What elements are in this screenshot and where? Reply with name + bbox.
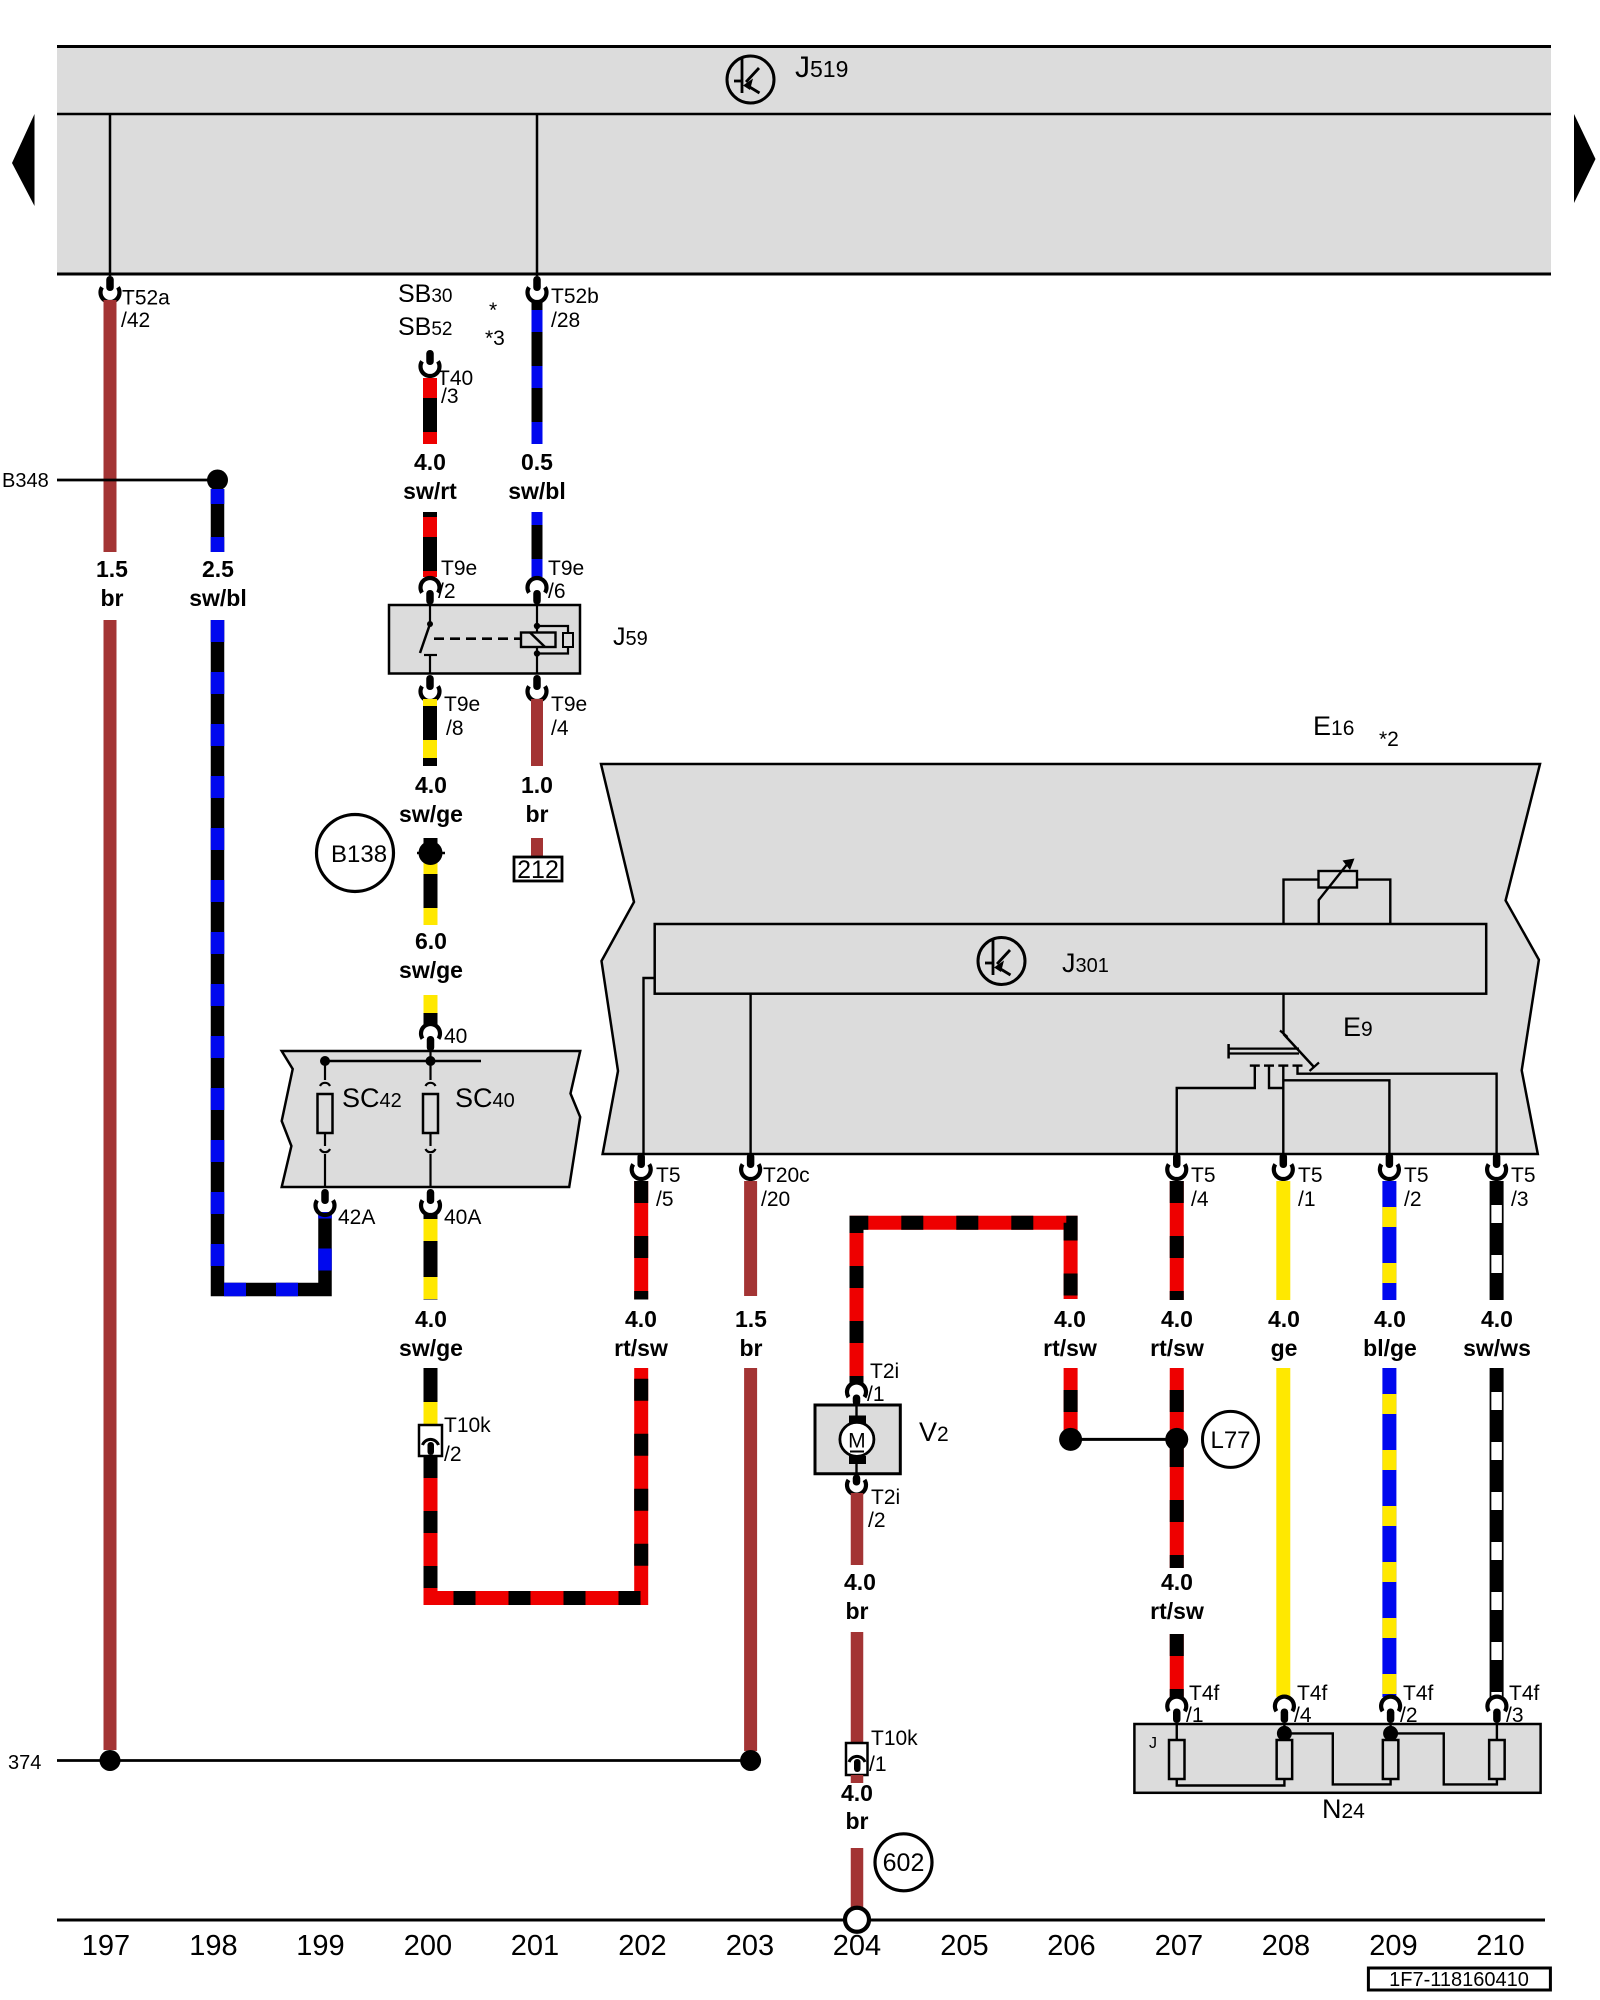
connector T9e/2 (421, 578, 440, 593)
resistor element 2 (1283, 1724, 1285, 1740)
fuse SC40 (429, 1050, 431, 1080)
potentiometer body (1319, 871, 1358, 888)
J519 bottom border (57, 273, 1551, 276)
wire bl/ge 4.0 below T5/2 (1382, 1181, 1396, 1300)
svg-text:205: 205 (940, 1930, 988, 1962)
wire sw/ge into T10k/2 (424, 1368, 438, 1426)
connector T5/5 (632, 1164, 651, 1179)
wire br 1.5 down to node 374 (744, 1368, 757, 1751)
connector T4f/2 (1381, 1697, 1400, 1712)
K symbol circle J301 (978, 938, 1025, 985)
svg-text:sw/ws: sw/ws (1463, 1335, 1531, 1361)
heater control unit E16 body (601, 764, 1540, 1154)
svg-text:sw/rt: sw/rt (403, 478, 457, 504)
svg-text:sw/ge: sw/ge (399, 1335, 463, 1361)
svg-text:T4f: T4f (1403, 1682, 1434, 1705)
svg-text:rt/sw: rt/sw (1150, 1598, 1204, 1624)
svg-text:203: 203 (726, 1930, 774, 1962)
svg-text:4.0: 4.0 (841, 1780, 873, 1806)
wire br 4.0 below T10k/1 (851, 1775, 864, 1783)
svg-text:199: 199 (296, 1930, 344, 1962)
switch E9 actuator (1227, 1044, 1230, 1059)
wire link between junctions (1071, 1438, 1177, 1441)
svg-text:/2: /2 (1404, 1188, 1422, 1211)
wire sw/bl 0.5 into relay (532, 512, 543, 577)
relay parallel resistor (534, 623, 540, 629)
left continuation arrow (12, 114, 35, 206)
right continuation arrow (1574, 114, 1596, 203)
svg-text:*3: *3 (485, 327, 505, 350)
wire stub inside J519 to T52b (536, 114, 539, 276)
connector 40A (421, 1200, 440, 1215)
svg-text:42A: 42A (338, 1206, 375, 1229)
svg-text:T2i: T2i (871, 1486, 900, 1509)
svg-text:1.5: 1.5 (735, 1306, 767, 1332)
motor V2 symbol (840, 1422, 874, 1456)
wire stub inside J519 to T52a (109, 114, 112, 276)
svg-text:ge: ge (1271, 1335, 1298, 1361)
svg-text:/6: /6 (548, 580, 566, 603)
svg-text:T4f: T4f (1297, 1682, 1328, 1705)
svg-text:4.0: 4.0 (1268, 1306, 1300, 1332)
junction 374 right node (740, 1750, 761, 1771)
svg-text:6.0: 6.0 (415, 928, 447, 954)
junction left node (1059, 1428, 1082, 1451)
wire br 4.0 into T10k/1 (851, 1632, 864, 1744)
switch E9 contact 2 (1264, 1064, 1274, 1066)
svg-text:/5: /5 (656, 1188, 674, 1211)
svg-text:T9e: T9e (548, 557, 584, 580)
svg-text:/1: /1 (867, 1383, 885, 1406)
wire rt/sw 4.0 up to T5/5 (634, 1181, 648, 1300)
potentiometer wiper lead (1319, 862, 1349, 924)
svg-text:J: J (1149, 1735, 1157, 1752)
wire sw/bl 2.5 upper segment (211, 489, 225, 552)
inline connector T10k/1 (846, 1743, 868, 1775)
svg-text:T9e: T9e (441, 557, 477, 580)
svg-text:1F7-118160410: 1F7-118160410 (1389, 1969, 1529, 1991)
svg-text:*: * (489, 299, 497, 322)
wire br 1.0 to ground 212 (531, 838, 543, 858)
svg-text:/3: /3 (1511, 1188, 1529, 1211)
svg-text:L77: L77 (1210, 1427, 1250, 1454)
sensor circle B138 (317, 815, 394, 892)
wire br 1.5 from T52a upper part (104, 300, 117, 552)
wire sw/ws 4.0 into T4f/3 (1490, 1368, 1504, 1697)
svg-text:/3: /3 (441, 385, 459, 408)
svg-text:T20c: T20c (763, 1164, 810, 1187)
svg-text:4.0: 4.0 (1054, 1306, 1086, 1332)
wire sw/rt 4.0 below T40 (423, 378, 437, 444)
connector 42A (316, 1200, 335, 1215)
node tick at B138 (417, 852, 445, 855)
connector T2i/2 (847, 1480, 866, 1495)
wire sw/ge 6.0 into fuse 40 (424, 995, 438, 1025)
ground designation 212 (514, 857, 562, 881)
motor V2 leads (855, 1405, 857, 1422)
switch E9 blade (1280, 1031, 1288, 1038)
wire rt/sw 4.0 loop from T10k/2 to T5/5 (431, 1368, 642, 1598)
svg-text:rt/sw: rt/sw (614, 1335, 668, 1361)
svg-text:M: M (848, 1430, 866, 1453)
svg-text:/4: /4 (1191, 1188, 1209, 1211)
svg-text:4.0: 4.0 (625, 1306, 657, 1332)
svg-text:br: br (101, 585, 124, 611)
svg-text:4.0: 4.0 (414, 449, 446, 475)
J519 top border (57, 45, 1551, 48)
relay coil (521, 633, 556, 648)
connector T4f/4 (1275, 1697, 1294, 1712)
svg-text:T52a: T52a (122, 287, 170, 310)
connector T2i/1 (847, 1383, 866, 1398)
svg-text:B348: B348 (2, 470, 49, 492)
svg-text:602: 602 (883, 1849, 925, 1877)
svg-text:/8: /8 (446, 717, 464, 740)
resistor element 1 (1176, 1724, 1178, 1740)
svg-text:J519: J519 (795, 51, 848, 84)
svg-text:sw/bl: sw/bl (189, 585, 247, 611)
svg-text:212: 212 (517, 856, 559, 884)
svg-text:T5: T5 (1191, 1164, 1216, 1187)
svg-text:206: 206 (1047, 1930, 1095, 1962)
svg-text:202: 202 (618, 1930, 666, 1962)
wire sw/bl 42A stub dashes (318, 1212, 332, 1290)
switch E9 pivot lead (1282, 994, 1284, 1034)
relay bottom contact (424, 654, 437, 656)
svg-text:*2: *2 (1379, 728, 1399, 751)
svg-text:sw/ge: sw/ge (399, 801, 463, 827)
fuse panel SC body (282, 1051, 581, 1187)
svg-text:br: br (846, 1808, 869, 1834)
resistor pack N24 body (1134, 1724, 1540, 1793)
wire br 1.0 below relay (531, 699, 543, 766)
svg-text:2.5: 2.5 (202, 556, 234, 582)
wire 374 horizontal (57, 1759, 752, 1762)
connector T9e/6 (527, 578, 546, 593)
relay switch blade (420, 624, 430, 653)
svg-text:201: 201 (511, 1930, 559, 1962)
resistor 1 to 2 link (1177, 1779, 1285, 1786)
svg-text:4.0: 4.0 (1161, 1306, 1193, 1332)
wire ge 4.0 into T4f/4 (1276, 1368, 1290, 1697)
wire sw/bl 0.5 below T52b (532, 300, 543, 444)
svg-text:4.0: 4.0 (415, 772, 447, 798)
svg-text:1.5: 1.5 (96, 556, 128, 582)
connector T9e/4 (528, 686, 547, 701)
connector T52b/28 (527, 287, 546, 302)
connector 40 into fuse panel (421, 1024, 440, 1039)
svg-text:/2: /2 (444, 1443, 462, 1466)
switch E9 contact 1 (1250, 1064, 1260, 1066)
fuse panel bus bar (325, 1060, 481, 1063)
inline connector T10k/2 (419, 1425, 442, 1456)
junction 374 left node (100, 1750, 121, 1771)
relay actuating dashed link (434, 637, 521, 640)
connector T9e/8 (421, 686, 440, 701)
control module J519 body (57, 45, 1551, 274)
junction right node (1165, 1428, 1188, 1451)
connector T40/3 pin (421, 361, 440, 376)
svg-text:4.0: 4.0 (1161, 1569, 1193, 1595)
motor V2 brushes (849, 1416, 866, 1425)
svg-text:T5: T5 (656, 1164, 681, 1187)
svg-text:210: 210 (1476, 1930, 1524, 1962)
svg-text:209: 209 (1369, 1930, 1417, 1962)
diagram number box (1368, 1968, 1550, 1990)
svg-text:/2: /2 (868, 1509, 886, 1532)
svg-text:207: 207 (1155, 1930, 1203, 1962)
link 2 top to 3 bottom (1284, 1733, 1390, 1784)
svg-text:40: 40 (444, 1025, 467, 1048)
bottom track rail (57, 1919, 1545, 1922)
wire sw/bl 2.5 long run with corner to 42A (218, 620, 326, 1290)
svg-text:/1: /1 (869, 1753, 887, 1776)
wire br 1.5 below T20c/20 (744, 1181, 757, 1296)
fuse SC42 (324, 1061, 326, 1080)
relay contact lead (429, 606, 431, 622)
junction B348 node (207, 470, 228, 491)
link 3 top to 4 bottom (1391, 1733, 1497, 1784)
svg-text:200: 200 (404, 1930, 452, 1962)
svg-text:0.5: 0.5 (521, 449, 553, 475)
svg-text:T2i: T2i (870, 1360, 899, 1383)
wire sw/ge 6.0 with B138 node (424, 838, 438, 925)
wire br 4.0 to ground point (851, 1848, 864, 1908)
svg-text:br: br (846, 1598, 869, 1624)
connector T4f/3 (1487, 1697, 1506, 1712)
svg-text:/20: /20 (761, 1188, 790, 1211)
J301 lead to T20c/20 (749, 994, 751, 1154)
control module J301 body (655, 924, 1486, 994)
wire sw/ge 4.0 below relay (423, 699, 437, 766)
switch E9 contact 3 (1278, 1064, 1288, 1066)
svg-text:rt/sw: rt/sw (1150, 1335, 1204, 1361)
svg-text:J59: J59 (613, 623, 648, 651)
svg-text:/42: /42 (121, 309, 150, 332)
svg-text:T5: T5 (1404, 1164, 1429, 1187)
svg-text:br: br (740, 1335, 763, 1361)
potentiometer bracket right (1357, 880, 1390, 924)
wire ge 4.0 below T5/1 (1276, 1181, 1290, 1300)
svg-text:T4f: T4f (1509, 1682, 1540, 1705)
wire sw/ws 4.0 below T5/3 (1490, 1181, 1504, 1300)
K symbol circle J519 (727, 56, 774, 103)
potentiometer bracket left (1284, 880, 1319, 924)
svg-text:/1: /1 (1298, 1188, 1316, 1211)
relay coil leads (536, 606, 538, 633)
J301 lead to T5/5 (644, 978, 655, 1154)
svg-text:T10k: T10k (444, 1414, 491, 1437)
switch E9 contact 4 (1293, 1064, 1303, 1066)
svg-text:1.0: 1.0 (521, 772, 553, 798)
wire rt/sw 4.0 loop over V2 (857, 1223, 1071, 1383)
svg-text:rt/sw: rt/sw (1043, 1335, 1097, 1361)
svg-text:sw/bl: sw/bl (508, 478, 566, 504)
svg-text:T52b: T52b (551, 285, 599, 308)
lamp circle L77 (1203, 1411, 1259, 1467)
svg-text:T9e: T9e (444, 693, 480, 716)
svg-text:/28: /28 (551, 309, 580, 332)
svg-text:B138: B138 (331, 841, 387, 868)
connector T5/1 (1274, 1164, 1293, 1179)
svg-text:bl/ge: bl/ge (1363, 1335, 1417, 1361)
svg-text:208: 208 (1262, 1930, 1310, 1962)
svg-text:T5: T5 (1298, 1164, 1323, 1187)
svg-text:4.0: 4.0 (844, 1569, 876, 1595)
wire sw/ge 4.0 below 40A (424, 1213, 438, 1300)
svg-text:4.0: 4.0 (415, 1306, 447, 1332)
svg-text:4.0: 4.0 (1374, 1306, 1406, 1332)
connector T5/4 (1167, 1164, 1186, 1179)
connector T5/2 (1380, 1164, 1399, 1179)
relay J59 body (389, 605, 580, 674)
svg-text:sw/ge: sw/ge (399, 957, 463, 983)
connector T5/3 (1487, 1164, 1506, 1179)
svg-text:br: br (526, 801, 549, 827)
wire rt/sw 4.0 through L77 junction (1170, 1368, 1184, 1568)
wire rt/sw 4.0 into T4f/1 (1170, 1634, 1184, 1697)
junction on sw/ge wire (419, 841, 443, 865)
wire B348 horizontal (57, 479, 218, 482)
svg-text:T10k: T10k (871, 1727, 918, 1750)
wire br 4.0 below T2i/2 (851, 1493, 864, 1565)
J519 divider line (57, 113, 1551, 116)
svg-text:204: 204 (833, 1930, 881, 1962)
potentiometer arrow head (1343, 859, 1355, 871)
wire sw/rt 4.0 into relay (423, 512, 437, 577)
svg-text:197: 197 (82, 1930, 130, 1962)
wire rt/sw 4.0 below T5/4 (1170, 1181, 1184, 1300)
ground designation circle 602 (875, 1834, 932, 1891)
connector T20c/20 (741, 1164, 760, 1179)
svg-text:374: 374 (8, 1752, 41, 1774)
wire rt/sw 4.0 down to junction (1064, 1368, 1078, 1432)
wire bl/ge 4.0 into T4f/2 (1382, 1368, 1396, 1697)
wire br 1.5 long run down to node 374 (104, 620, 117, 1750)
resistor element 4 (1496, 1724, 1498, 1740)
svg-text:T4f: T4f (1189, 1682, 1220, 1705)
svg-text:198: 198 (189, 1930, 237, 1962)
svg-text:/2: /2 (438, 580, 456, 603)
fresh air blower V2 body (815, 1405, 900, 1474)
connector T52a/42 (100, 287, 119, 302)
svg-text:4.0: 4.0 (1481, 1306, 1513, 1332)
connector T4f/1 (1167, 1697, 1186, 1712)
ground connection ring at 204 (845, 1908, 869, 1932)
svg-text:T9e: T9e (551, 693, 587, 716)
resistor element 3 (1389, 1724, 1391, 1740)
svg-text:T5: T5 (1511, 1164, 1536, 1187)
svg-text:40A: 40A (444, 1206, 481, 1229)
svg-text:/4: /4 (551, 717, 569, 740)
